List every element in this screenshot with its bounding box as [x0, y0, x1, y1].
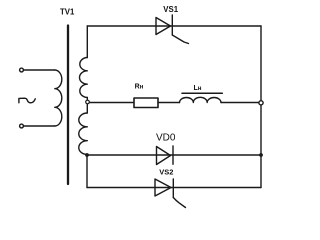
resistor Rн [134, 98, 158, 108]
AC source tilde [19, 98, 35, 103]
wire primary top lead [24, 69, 55, 71]
svg-text:TV1: TV1 [60, 8, 75, 17]
thyristor VS1 triangle [156, 18, 171, 35]
junction diode to right rail [259, 153, 263, 157]
junction secondary bottom [85, 153, 89, 157]
transformer secondary winding lower [79, 113, 88, 155]
wire center tap lower stub [86, 104, 88, 113]
svg-text:Lн: Lн [194, 85, 202, 92]
wire inductor to node [221, 102, 261, 104]
thyristor VS2 cathode bar [172, 179, 174, 198]
transformer secondary winding upper [80, 58, 88, 98]
primary terminal bottom [20, 124, 24, 128]
wire secondary bottom vertical [86, 155, 88, 188]
transformer primary winding [55, 70, 62, 126]
thyristor VS2 triangle [155, 179, 171, 196]
wire center tap to resistor [89, 102, 134, 104]
wire resistor to inductor [158, 102, 180, 104]
inductor Lн core bar [182, 92, 222, 94]
thyristor VS1 gate [172, 35, 188, 44]
wire top anode [87, 25, 261, 27]
wire bottom cathode [87, 187, 261, 189]
wire center tap upper stub [86, 98, 88, 101]
svg-text:VS1: VS1 [163, 5, 178, 14]
transformer core [67, 26, 69, 185]
wire secondary top lead [86, 26, 88, 58]
node load output [259, 101, 263, 105]
primary terminal top [20, 68, 24, 72]
diode VD0 cathode bar [172, 146, 174, 164]
wire right vertical [260, 26, 262, 188]
node center tap [86, 100, 90, 104]
diode VD0 triangle [157, 147, 171, 165]
thyristor VS2 gate [173, 198, 185, 208]
svg-text:VS2: VS2 [159, 168, 173, 177]
svg-text:Rн: Rн [135, 84, 144, 91]
wire freewheel diode line [87, 154, 261, 156]
thyristor VS1 cathode bar [171, 15, 173, 35]
wire primary bottom lead [24, 125, 55, 127]
inductor Lн [180, 97, 222, 102]
svg-text:VD0: VD0 [156, 133, 176, 144]
